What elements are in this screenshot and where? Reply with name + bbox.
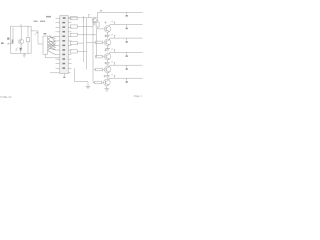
- phototransistor Q1: [19, 26, 24, 47]
- label K1: [44, 33, 47, 34]
- transistor Q3: [104, 26, 111, 33]
- plus mark rail1: [100, 10, 102, 13]
- tick under rail5: [126, 65, 128, 70]
- arrow on rail5: [111, 62, 115, 65]
- bus wire E: [96, 28, 98, 57]
- wire K1 to U1 pin9: [45, 54, 60, 58]
- plus mark stage3: [104, 35, 106, 37]
- U1 pins right: [68, 18, 71, 73]
- stage1 junction tick: [82, 16, 84, 20]
- stage6 emitter and ground: [104, 86, 109, 91]
- stage3 feed wire: [87, 41, 96, 43]
- resistor R10: [70, 42, 83, 45]
- U1 bottom pin: [63, 74, 65, 77]
- rail OUT5: [110, 64, 143, 66]
- tick under rail2: [126, 25, 128, 30]
- resistor R8: [70, 25, 93, 28]
- stage2 emitter and ground: [105, 32, 110, 37]
- stage5 feed wire: [93, 69, 96, 71]
- stage6 collector riser: [108, 78, 110, 80]
- U1 pins left: [50, 18, 60, 73]
- stage5 collector riser: [109, 65, 111, 67]
- resistor R6 inside box: [26, 26, 29, 53]
- stage6 feed wire: [93, 82, 95, 84]
- bus wire B: [82, 18, 84, 62]
- svg-text:Page 1: Page 1: [134, 95, 143, 98]
- transistor Q7: [104, 79, 111, 86]
- plus mark stage2: [104, 21, 106, 23]
- resistor R16: [95, 81, 104, 84]
- stage1 riser: [97, 12, 99, 17]
- stage1 collector wire: [68, 17, 97, 19]
- title text file path: [0, 97, 12, 99]
- plus mark stage6: [104, 75, 106, 77]
- plus mark stage5: [104, 62, 106, 64]
- bus wire C: [86, 18, 88, 70]
- transistor Q2: [92, 18, 96, 22]
- tick under rail1: [126, 12, 128, 16]
- ground stage1: [92, 23, 96, 25]
- plus mark stage4: [104, 49, 106, 51]
- stage3 collector riser: [109, 38, 111, 40]
- pin stub above U2: [20, 24, 22, 26]
- trimmer arrow P1: [35, 32, 38, 35]
- common ground: [86, 86, 90, 88]
- label IC2: [46, 16, 51, 18]
- rail OUT2: [110, 24, 143, 26]
- arrow on rail3: [111, 35, 115, 38]
- stage5 emitter and ground: [105, 73, 110, 78]
- stage4 collector riser: [109, 52, 111, 54]
- arrow on rail6: [111, 75, 115, 78]
- rail OUT3: [110, 37, 143, 39]
- connector X1 label: [1, 42, 4, 44]
- ground below U2: [23, 53, 27, 57]
- resistor R14: [96, 55, 105, 58]
- transistor Q5: [104, 53, 111, 60]
- LED D1: [11, 28, 13, 44]
- transistor Q4: [104, 39, 111, 46]
- resistor R11: [70, 50, 86, 53]
- wire U2 to trimmer: [31, 30, 38, 32]
- resistor R9: [70, 33, 96, 36]
- arrow on rail4: [111, 49, 115, 52]
- wire input to opto box: [8, 43, 13, 45]
- bus wire D: [92, 22, 94, 83]
- stage3 emitter and ground: [105, 46, 110, 51]
- stage4 emitter and ground: [105, 60, 110, 65]
- transistor Q6: [104, 66, 111, 73]
- U1 bottom pin label: [63, 77, 65, 78]
- svg-text:D:\REL.SC: D:\REL.SC: [0, 97, 12, 99]
- tick under rail4: [126, 52, 128, 57]
- stage4 feed wire: [95, 56, 98, 58]
- label OK1: [34, 21, 46, 22]
- arrow on rail2: [111, 21, 115, 24]
- tick under rail6: [126, 78, 128, 83]
- stage2 collector riser: [109, 25, 111, 27]
- wire down to relay K1: [38, 31, 43, 44]
- stage2 feed resistor R12: [96, 18, 104, 29]
- stage1 label tick: [88, 15, 90, 18]
- optocoupler U2 box: [11, 26, 32, 53]
- resistor R7: [70, 17, 77, 20]
- wire fan K1 to U1: [48, 35, 56, 55]
- resistor R15: [96, 68, 105, 71]
- relay K1: [43, 36, 48, 54]
- opto light arrows: [16, 48, 18, 52]
- rail OUT6: [109, 77, 143, 79]
- node IN pin label: [7, 38, 9, 40]
- U1 pin numbers: [62, 17, 65, 69]
- diode D2: [19, 48, 22, 54]
- wire to common ground: [74, 68, 88, 86]
- IC U1 body: [60, 16, 68, 74]
- rail OUT4: [110, 51, 143, 53]
- resistor R13: [96, 41, 105, 44]
- rail OUT1: [98, 11, 143, 13]
- page number text: [134, 95, 143, 98]
- tick under rail3: [126, 38, 128, 43]
